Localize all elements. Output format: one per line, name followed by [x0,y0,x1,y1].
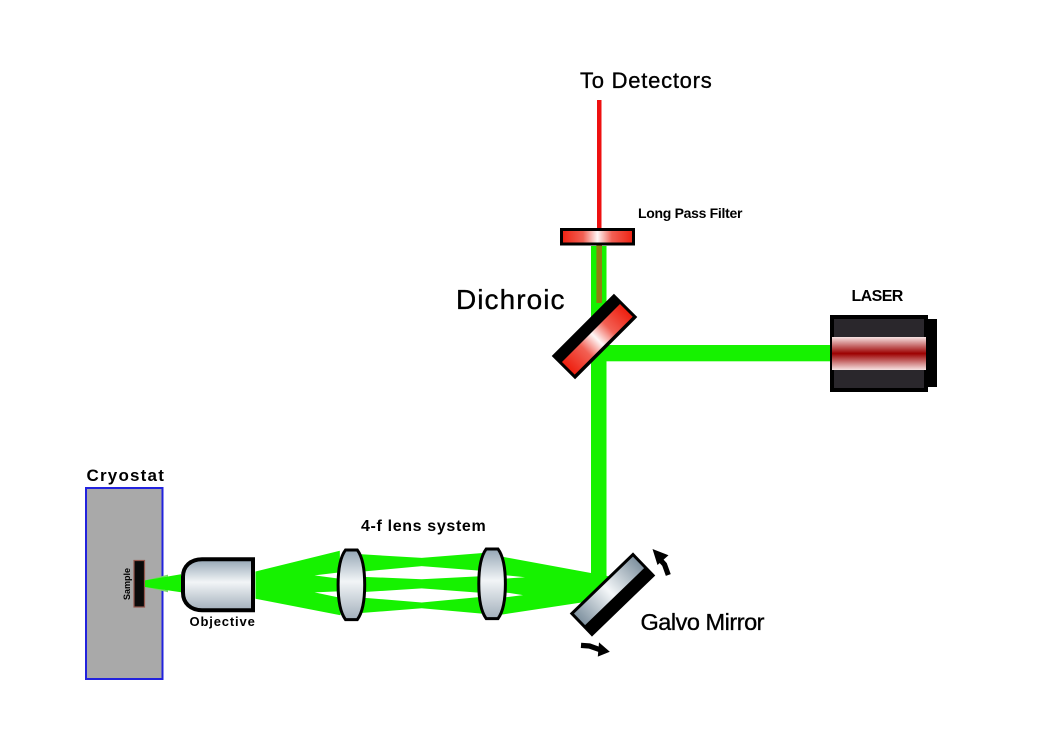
olive red-over-green stripe below filter [596,245,602,303]
white wedge lower (objective side) [315,591,341,598]
sample to objective bright fan [145,574,181,592]
galvo mirror [570,552,656,636]
label: Cryostat [87,466,166,486]
objective to lens1 fan [256,551,341,616]
label: Objective [190,614,256,629]
white wedge upper (objective side) [315,572,341,579]
label: 4-f lens system [361,518,486,536]
galvo rotation arrow lower [581,642,610,656]
label: Sample (rotated) [122,534,132,634]
red beam to detectors [597,100,602,231]
label: To Detectors [580,68,713,94]
lens 2 [479,549,506,619]
bowtie beam middle (between lenses) [345,575,500,594]
dichroic mirror [552,294,638,380]
label: Dichroic [456,284,566,316]
sample to objective light fan [145,575,168,581]
lens 1 [338,550,365,620]
vertical green beam (dichroic to galvo) [591,246,607,604]
laser body [832,317,926,390]
lens2 to galvo fan [500,556,614,615]
sample bar [134,561,145,608]
objective [183,559,253,610]
label: Galvo Mirror [641,609,765,636]
sample fan light wedge lower [145,587,168,592]
long pass filter [562,230,634,245]
laser red gradient stripe [832,337,926,370]
white wedge upper (galvo side) [504,575,525,579]
cryostat body [86,488,163,679]
bowtie beam bottom (between lenses) [345,595,500,615]
bowtie beam top (between lenses) [345,552,500,574]
label: Long Pass Filter [638,205,742,221]
galvo rotation arrow upper [653,549,669,575]
white wedge lower (galvo side) [504,592,523,597]
label: LASER [852,288,903,306]
horizontal green beam (laser to dichroic) [600,345,832,361]
laser rear block [926,319,937,387]
